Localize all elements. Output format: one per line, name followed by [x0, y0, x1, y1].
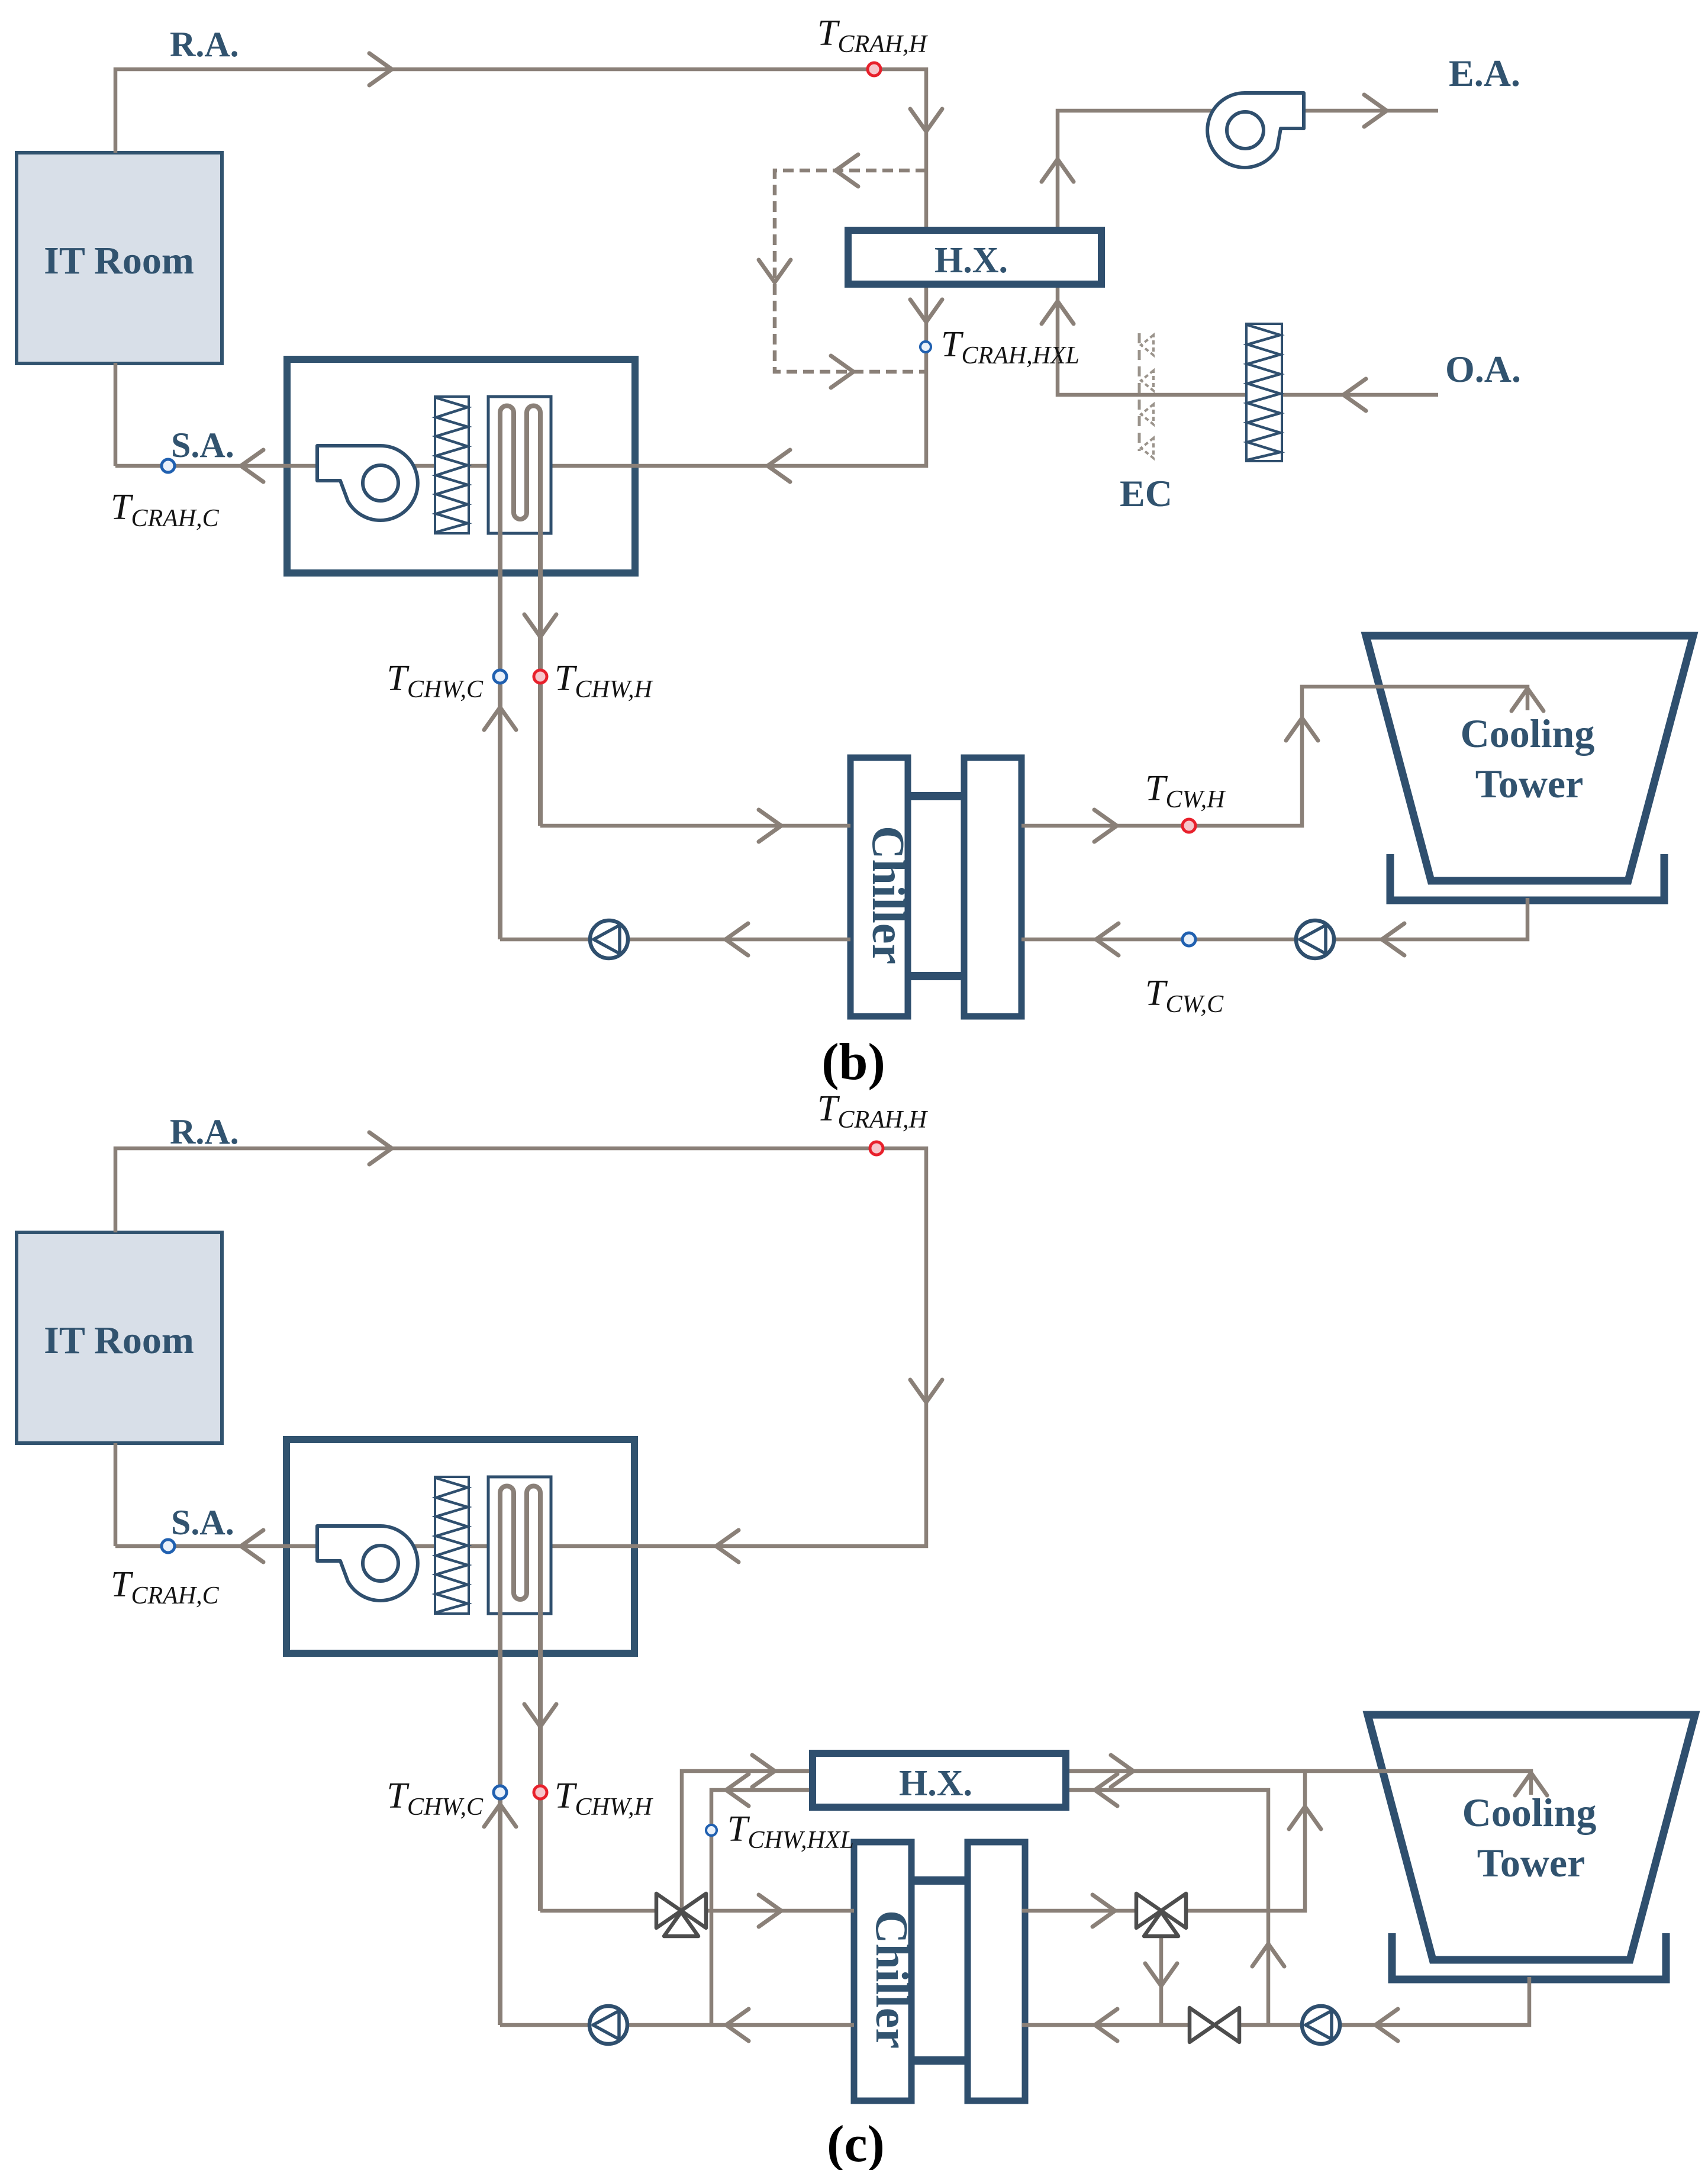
svg-text:(b): (b) — [821, 1034, 885, 1091]
svg-text:R.A.: R.A. — [170, 1112, 239, 1151]
svg-text:R.A.: R.A. — [170, 25, 239, 64]
svg-text:E.A.: E.A. — [1449, 52, 1520, 94]
svg-text:S.A.: S.A. — [171, 1503, 234, 1542]
svg-text:EC: EC — [1120, 472, 1172, 514]
svg-text:S.A.: S.A. — [171, 426, 234, 465]
svg-text:(c): (c) — [827, 2116, 885, 2170]
svg-text:O.A.: O.A. — [1445, 348, 1521, 390]
